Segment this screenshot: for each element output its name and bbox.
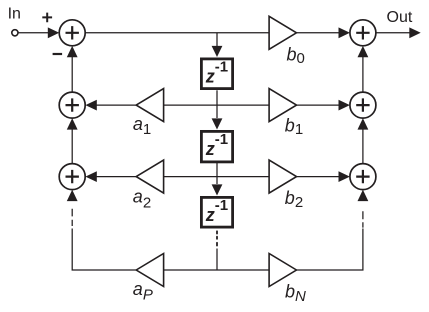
svg-text:Out: Out — [387, 9, 413, 26]
wire bottom node to amp bN — [217, 269, 269, 271]
dashed wire below summer U6 — [362, 211, 364, 227]
arrowhead feedforward into summer U6 — [358, 190, 369, 201]
svg-text:-1: -1 — [215, 131, 228, 148]
arrowhead from summer U3 into summer U2 — [67, 118, 78, 129]
wire delay tap row2 right to amp b2 — [217, 176, 269, 178]
svg-text:-1: -1 — [215, 59, 228, 76]
amp b0 — [269, 16, 296, 49]
arrowhead feedback into summer U3 — [67, 190, 78, 201]
wire summer U4 to Out — [376, 32, 410, 34]
wire delay chain to bottom row node — [216, 249, 218, 271]
wire amp a1 to summer U2 — [97, 104, 137, 106]
wire delay Z1 to delay Z2 — [216, 90, 218, 118]
arrowhead from amp a1 into summer U2 — [85, 100, 96, 111]
arrowhead into delay Z3 — [212, 184, 223, 195]
amp a2 — [136, 160, 163, 193]
wire summer U3 to summer U2 — [71, 129, 73, 163]
amp b2 — [269, 160, 296, 193]
svg-text:z: z — [205, 67, 215, 87]
node In (input terminal) — [12, 30, 18, 36]
arrowhead from summer U5 into summer U4 — [358, 46, 369, 57]
wire tap down to delay Z1 — [216, 33, 218, 46]
delay Z1 (z^-1) — [201, 59, 232, 89]
arrowhead from amp a2 into summer U3 — [85, 171, 96, 182]
wire summer U6 to summer U5 — [362, 129, 364, 163]
wire summer U1 to amp b0 (row 0) — [85, 32, 269, 34]
wire delay tap row1 right to amp b1 — [217, 104, 269, 106]
amp a1 — [136, 89, 163, 122]
amp b1 — [269, 89, 296, 122]
svg-text:z: z — [205, 139, 215, 159]
wire amp b0 to summer U4 — [297, 32, 340, 34]
arrowhead into delay Z2 — [212, 118, 223, 129]
wire delay tap row1 left to amp a1 — [164, 104, 217, 106]
delay Z3 (z^-1) — [201, 197, 232, 227]
wire amp b1 to summer U5 — [297, 104, 340, 106]
delay Z2 (z^-1) — [201, 131, 232, 162]
amp bN — [269, 254, 296, 287]
arrowhead from summer U2 into summer U1 — [67, 46, 78, 57]
svg-text:z: z — [205, 205, 215, 225]
arrowhead into summer U5 — [339, 100, 350, 111]
wire amp a2 to summer U3 — [97, 176, 137, 178]
summer U4 (top right) — [350, 20, 376, 46]
arrowhead into summer U4 — [339, 27, 350, 38]
arrowhead from summer U6 into summer U5 — [358, 118, 369, 129]
wire In to summer U1 — [18, 32, 48, 34]
wire bottom node to amp aP — [164, 269, 217, 271]
summer U2 (left, row 1) — [59, 92, 85, 118]
arrowhead into summer U1 — [48, 27, 59, 38]
wire amp bN to bottom right corner up — [297, 229, 363, 271]
arrowhead into delay Z1 — [212, 46, 223, 57]
summer U5 (right, row 1) — [350, 92, 376, 118]
amp aP — [136, 254, 163, 287]
wire delay Z2 to delay Z3 — [216, 162, 218, 184]
summer U3 (left, row 2) — [59, 164, 85, 190]
svg-text:-1: -1 — [215, 197, 228, 214]
summer U6 (right, row 2) — [350, 164, 376, 190]
dotted continuation below delay Z3 — [216, 231, 218, 245]
wire amp b2 to summer U6 — [297, 176, 340, 178]
minus sign label at summer U1 feedback input — [53, 53, 63, 55]
wire summer U2 to summer U1 — [71, 57, 73, 92]
wire summer U5 to summer U4 — [362, 57, 364, 92]
arrowhead Out — [409, 27, 420, 38]
wire delay tap row2 left to amp a2 — [164, 176, 217, 178]
wire bottom left corner up from amp aP — [72, 229, 136, 271]
summer U1 (top left) — [59, 20, 85, 46]
plus sign label at summer U1 input — [42, 13, 52, 23]
arrowhead into summer U6 — [339, 171, 350, 182]
dashed wire below summer U3 — [71, 209, 73, 226]
svg-text:In: In — [8, 6, 21, 23]
